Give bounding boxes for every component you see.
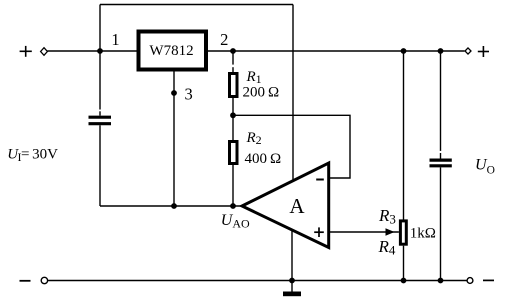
pin 3 dot (171, 90, 177, 96)
resistor R1 top lead (232, 51, 234, 65)
resistor R2 bottom lead (232, 165, 234, 206)
label plus input (314, 227, 324, 237)
potentiometer bottom lead (403, 246, 405, 281)
capacitor C output: plates (430, 159, 452, 162)
label minus input (316, 179, 324, 181)
capacitor C input: bottom lead (99, 125, 101, 206)
wire op-amp V+ supply drop (292, 5, 294, 181)
regulator U1 W7812 box (139, 32, 207, 70)
svg-text:400 Ω: 400 Ω (245, 151, 282, 167)
capacitor C input: plates (89, 116, 112, 119)
wire top supply rail (100, 4, 293, 6)
wire UAO node horizontal (100, 205, 242, 207)
svg-text:W7812: W7812 (149, 43, 193, 59)
svg-text:UO: UO (475, 157, 495, 177)
svg-text:R2: R2 (246, 130, 262, 147)
wire input to regulator pin 1 (47, 50, 138, 52)
capacitor C input: top lead (99, 51, 101, 110)
label + (input polarity) (20, 46, 32, 57)
wire feedback to inverting input (233, 115, 350, 178)
node dot pot top (401, 48, 407, 54)
ground bar (283, 292, 301, 297)
terminal output + (diamond) (465, 48, 471, 54)
wiper arrow head (386, 228, 395, 235)
resistor R2 body (230, 142, 238, 164)
label minus (input polarity) (20, 280, 31, 282)
node pin2 junction dot (230, 48, 236, 54)
svg-text:1kΩ: 1kΩ (410, 225, 436, 241)
wire non-inverting input to wiper (330, 231, 399, 233)
terminal output - (circle) (467, 278, 473, 284)
terminal input - (circle) (41, 277, 47, 283)
node dot pin3 at UAO wire (171, 203, 177, 209)
svg-text:UI=30V: UI=30V (7, 146, 58, 164)
capacitor C output: top lead (440, 51, 442, 151)
wire bottom rail (48, 280, 467, 282)
svg-text:UAO: UAO (221, 212, 250, 230)
resistor R1 bottom lead (232, 98, 234, 115)
node 1 junction dot (97, 48, 103, 54)
svg-text:1: 1 (111, 30, 119, 49)
wire regulator pin 3 (173, 71, 175, 206)
potentiometer R3/R4 body (400, 221, 406, 244)
node R1-R2 junction dot (230, 112, 236, 118)
wire op-amp V- to ground rail (291, 229, 293, 281)
label minus (output polarity) (483, 279, 494, 281)
svg-text:2: 2 (220, 30, 228, 49)
wire top-left drop to node 1 (99, 5, 101, 52)
resistor R1 body (230, 74, 238, 97)
resistor R2 top lead (232, 115, 234, 141)
node dot cap top (438, 48, 444, 54)
ground stub (291, 281, 293, 292)
capacitor C output: bottom lead (440, 167, 442, 280)
op-amp A triangle (242, 163, 329, 248)
node dot pot bottom (401, 278, 407, 284)
node dot ground junction (289, 278, 295, 284)
node dot cap bottom (438, 278, 444, 284)
label + (output polarity) (478, 46, 489, 57)
potentiometer top lead (403, 51, 405, 220)
svg-text:R4: R4 (378, 237, 396, 257)
svg-text:3: 3 (184, 85, 192, 104)
terminal input + (diamond) (41, 48, 48, 56)
svg-text:200 Ω: 200 Ω (243, 84, 280, 100)
svg-text:R3: R3 (378, 206, 396, 226)
node UAO dot (230, 203, 236, 209)
svg-text:A: A (289, 194, 305, 218)
wire output rail from pin 2 (208, 50, 465, 52)
